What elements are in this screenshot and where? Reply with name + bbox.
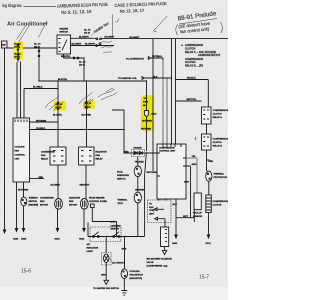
cooling fan switch ground wire [123, 279, 125, 291]
svg-text:STAT: STAT [118, 202, 124, 205]
thermostat [134, 192, 141, 203]
svg-text:COMPRESSOR: COMPRESSOR [159, 147, 175, 149]
svg-text:FAN: FAN [41, 154, 46, 157]
junction switch2 [116, 236, 117, 237]
connector wire through highlight [146, 81, 148, 110]
scan noise texture [0, 0, 1, 1]
svg-text:RED: RED [124, 151, 129, 153]
svg-text:15-6: 15-6 [21, 269, 31, 275]
svg-text:WHT/GRN: WHT/GRN [36, 121, 47, 123]
svg-text:COMPRESSOR: COMPRESSOR [213, 110, 228, 112]
stub corner wire [112, 110, 124, 153]
svg-text:(10 A): (10 A) [14, 55, 20, 58]
svg-text:GRN/RED: GRN/RED [135, 189, 145, 191]
dual pressure switch [134, 166, 141, 177]
pen arrow to fuse No.13/14 [17, 24, 30, 42]
svg-text:BLU/RED: BLU/RED [82, 115, 92, 117]
wire WHT/GRN row [30, 121, 59, 123]
pick-up sensor box [194, 193, 201, 210]
junction fuse18 feed [57, 80, 58, 81]
fuse No.20-2 symbol [86, 81, 88, 147]
svg-text:BLU/WHT: BLU/WHT [130, 37, 141, 39]
fuse No.13 highlight [14, 42, 24, 51]
svg-text:CLUTCH: CLUTCH [213, 142, 222, 144]
svg-text:CONTROL: CONTROL [15, 155, 26, 157]
svg-text:FAN: FAN [96, 154, 101, 157]
svg-text:G400: G400 [172, 242, 178, 245]
junction no20 drop [38, 80, 39, 81]
pen arrow middle [154, 16, 168, 32]
wire condenser relay stub [30, 178, 45, 180]
svg-text:LIGHTING: LIGHTING [111, 225, 122, 227]
svg-text:COOLING: COOLING [15, 147, 25, 149]
svg-text:WHT/GRN: WHT/GRN [18, 190, 29, 192]
svg-text:A/C SWITCH: A/C SWITCH [112, 262, 125, 265]
fan control unit dashed box [148, 200, 172, 223]
compressor clutch [206, 195, 212, 213]
svg-text:BLK/YEL: BLK/YEL [61, 56, 71, 58]
lamp output wire [105, 263, 107, 281]
svg-text:FUSE: FUSE [143, 102, 149, 104]
battery ground bus wire [4, 48, 6, 230]
svg-text:◁ A/C: ◁ A/C [150, 113, 157, 116]
svg-text:SWITCH: SWITCH [117, 179, 126, 181]
ground cooling fan switch [121, 291, 127, 296]
wire WHT/YEL relay feed [175, 100, 202, 102]
svg-text:(10 A): (10 A) [14, 46, 20, 49]
svg-text:No 12, 18, 17: No 12, 18, 17 [120, 8, 145, 14]
svg-text:BLU/BLK: BLU/BLK [33, 87, 43, 89]
svg-text:BLU/WHT: BLU/WHT [105, 37, 116, 39]
compressor clutch relay A box [202, 107, 212, 124]
svg-text:No. 12: No. 12 [79, 62, 86, 64]
junction relay feed upper [175, 79, 176, 80]
svg-text:BLK: BLK [173, 204, 178, 206]
svg-text:UNIT: UNIT [15, 159, 21, 161]
junction diode row left [123, 152, 124, 153]
a/c switch feed wire [138, 153, 147, 237]
svg-text:BIG MAGNET SOLENOID: BIG MAGNET SOLENOID [147, 257, 173, 260]
svg-text:RELAY A: RELAY A [213, 116, 223, 119]
svg-text:No. 20: No. 20 [34, 44, 41, 46]
junction yel-blk row [86, 129, 87, 130]
junction relay feed lower [175, 100, 176, 101]
svg-text:GRN: GRN [192, 164, 197, 166]
svg-text:FAN: FAN [69, 200, 74, 203]
svg-text:RELAY B ... (FI): RELAY B ... (FI) [185, 65, 203, 68]
svg-text:ing Diagram: ing Diagram [2, 3, 22, 8]
pen scrawl near fuse 30A right [79, 92, 93, 106]
radiator fan motor [80, 199, 88, 210]
pen vertical stroke [111, 14, 113, 38]
svg-text:No. 14: No. 14 [14, 52, 21, 55]
svg-text:SWITCH: SWITCH [29, 201, 38, 203]
svg-text:FAN SWITCH: FAN SWITCH [130, 274, 144, 277]
solenoid arrow out [162, 247, 166, 255]
diode 2 [139, 151, 142, 154]
wire drop from No.12 [83, 58, 85, 81]
svg-text:TO ALTERNATOR: TO ALTERNATOR [126, 57, 144, 60]
pen scrawl far right [98, 88, 117, 100]
svg-text:(CARBURETED eng): (CARBURETED eng) [147, 264, 168, 267]
ground G400 [175, 235, 177, 238]
svg-text:GRN: GRN [110, 222, 115, 224]
svg-text:PICK-UP: PICK-UP [193, 213, 202, 215]
svg-text:(40 A): (40 A) [34, 46, 40, 49]
svg-text:UNIT: UNIT [149, 213, 155, 215]
pen check mark [116, 19, 120, 23]
clutch ground wire [208, 213, 210, 236]
compressor clutch relay B box [202, 134, 212, 150]
wire YEL/BLK relay feed [175, 80, 208, 108]
svg-text:THERMO: THERMO [29, 198, 39, 200]
svg-text:BLU/YEL: BLU/YEL [53, 115, 63, 117]
A/C switch wire [88, 223, 138, 237]
fuse No.14 highlight [14, 51, 24, 60]
GRN wire from heater panel [92, 208, 116, 237]
diode wire [124, 152, 157, 154]
diode box [132, 150, 145, 157]
switch 2 [113, 236, 115, 238]
svg-text:CONDENSER: CONDENSER [40, 198, 54, 200]
svg-text:COMPRESSOR: COMPRESSOR [213, 201, 229, 203]
cooling fan switch wire [124, 237, 126, 270]
svg-text:FAN: FAN [40, 200, 45, 203]
svg-text:Air Conditioner: Air Conditioner [7, 22, 49, 28]
A/C switch dashed box [90, 227, 121, 242]
svg-text:G101: G101 [206, 243, 212, 245]
svg-text:CONTROL PANEL: CONTROL PANEL [89, 200, 108, 203]
condenser fan motor [55, 199, 63, 210]
svg-text:INDICATOR: INDICATOR [87, 247, 99, 250]
svg-text:RELAY: RELAY [96, 158, 104, 161]
svg-text:(ENGINE): (ENGINE) [29, 205, 39, 207]
wire BLK/YEL horizontal [39, 80, 147, 82]
junction diode row right [146, 152, 147, 153]
main bus wire [7, 47, 57, 49]
handwritten note 3: 88-91 Prelude [176, 10, 223, 35]
svg-text:YEL/BLK: YEL/BLK [36, 128, 46, 130]
wire to compressor clutch [208, 181, 210, 195]
header rule [24, 5, 57, 7]
svg-text:BLU/WHT: BLU/WHT [85, 44, 96, 46]
svg-text:SENSOR: SENSOR [193, 216, 202, 218]
condenser fan motor ground wire [57, 208, 59, 228]
heater switch box [57, 35, 71, 54]
wire drops to control unit [17, 62, 24, 118]
header text "ing Diagram" [2, 3, 22, 8]
junction left drop b [20, 61, 21, 62]
svg-text:G401: G401 [13, 238, 19, 241]
wire No.12 fuse row [64, 54, 85, 58]
svg-text:DUAL: DUAL [117, 171, 124, 174]
svg-text:GRN: GRN [101, 274, 106, 276]
ground G402 [22, 229, 24, 232]
svg-text:BLK: BLK [153, 76, 158, 78]
fuse No.20 symbol [38, 48, 40, 81]
leader a/c switch [106, 253, 112, 262]
wire WHT/BLU arrow to alternator [151, 58, 163, 60]
svg-text:THERMO-: THERMO- [118, 200, 128, 202]
pick-up sensor feed [186, 158, 197, 193]
paper background [0, 0, 228, 300]
svg-text:(10 A): (10 A) [79, 64, 85, 67]
svg-text:MOTOR: MOTOR [69, 205, 77, 207]
heater panel feed box [91, 204, 95, 208]
svg-text:TO: TO [149, 204, 152, 206]
svg-text:LIGHT: LIGHT [87, 251, 94, 253]
svg-text:WHT/YEL: WHT/YEL [187, 99, 197, 101]
legend: compressor clutch relay list [180, 44, 221, 68]
svg-text:WHT/GRN: WHT/GRN [147, 172, 158, 174]
svg-text:TO HEATER FAN SWITCH: TO HEATER FAN SWITCH [93, 287, 120, 290]
cooling fan control unit box [13, 118, 30, 182]
dual pressure switch wire [137, 157, 139, 167]
svg-text:BLU/BLK: BLU/BLK [51, 185, 61, 187]
label TO FUSE 40A in highlight [143, 98, 149, 107]
fuse No.20 30A highlight [83, 101, 95, 110]
wire BLU/BLK horizontal [24, 88, 58, 90]
ground battery bus [3, 230, 5, 233]
svg-text:MOTOR: MOTOR [40, 205, 48, 207]
svg-text:CLUTCH: CLUTCH [213, 114, 222, 116]
svg-text:(RADIATOR): (RADIATOR) [130, 277, 143, 280]
thermostat wire [137, 177, 139, 193]
wire to ignition coil [145, 77, 172, 79]
svg-text:SWITCH: SWITCH [60, 32, 69, 34]
cooling fan switch [121, 269, 127, 279]
indicator lamp wires [105, 237, 107, 253]
svg-text:YEL/BLK: YEL/BLK [187, 78, 197, 80]
junction connector feed [146, 80, 147, 81]
svg-text:WHT/RED: WHT/RED [142, 120, 152, 122]
fuse No.13/14 symbols [17, 43, 19, 62]
svg-text:No. 18: No. 18 [56, 104, 63, 106]
connector pentagon [145, 111, 149, 117]
svg-text:(30 A): (30 A) [85, 105, 91, 108]
wire relay B to thermal protector [207, 150, 210, 171]
handwritten note 1: CARBURATED ECU [57, 2, 108, 15]
wire blower switch row [71, 45, 115, 47]
solenoid valve box [161, 227, 169, 247]
svg-text:WHT/RED: WHT/RED [141, 128, 151, 130]
battery feed box [2, 41, 8, 48]
thermal protector [206, 171, 212, 181]
thermo switch [21, 197, 27, 206]
junction wht-grn row [57, 121, 58, 122]
junction yel-blk right [123, 129, 124, 130]
junction fuse20-2 feed [86, 80, 87, 81]
svg-text:PRESSURE: PRESSURE [117, 175, 129, 177]
diode 1 [134, 151, 137, 154]
highlighted A/C fuse connector [141, 95, 154, 132]
svg-text:No. 13: No. 13 [14, 44, 21, 46]
junction lamp drop [106, 236, 107, 237]
svg-text:VALVE: VALVE [147, 261, 154, 264]
junction left drop a [16, 67, 17, 68]
svg-text:No. 18: No. 18 [84, 30, 91, 32]
svg-text:BLU/WHT: BLU/WHT [79, 36, 90, 38]
svg-text:WHT: WHT [183, 216, 189, 218]
svg-text:RELAY B: RELAY B [213, 145, 223, 148]
svg-text:RED: RED [39, 177, 44, 179]
fuse No.18 30A highlight [54, 101, 66, 111]
svg-text:FAN: FAN [15, 150, 20, 153]
svg-text:DIODES: DIODES [134, 148, 143, 150]
junction symbol [195, 137, 197, 141]
svg-text:RED/WHT: RED/WHT [80, 185, 91, 187]
ground condenser motor [56, 229, 58, 232]
svg-text:CONTROL UNIT: CONTROL UNIT [159, 151, 176, 153]
svg-text:FROM HEATER: FROM HEATER [89, 197, 105, 200]
svg-text:15-7: 15-7 [199, 275, 209, 281]
condenser fan relay box [50, 147, 66, 165]
thermo switch wires [17, 182, 24, 229]
junction no12 drop [83, 57, 84, 58]
ground radiator motor [83, 229, 85, 232]
svg-text:CTRL: CTRL [149, 210, 155, 212]
svg-text:FAN: FAN [149, 206, 154, 209]
ground G401 [15, 229, 17, 232]
svg-text:G201: G201 [55, 239, 61, 241]
feed wires to control unit [153, 39, 176, 171]
svg-text:(10 A): (10 A) [84, 32, 90, 35]
svg-text:WHT/BLU: WHT/BLU [152, 56, 162, 58]
svg-text:YEL/RED: YEL/RED [135, 162, 145, 164]
pen scrawl near fuse 30A left [45, 96, 63, 111]
relay link wire [206, 124, 208, 134]
compressor control unit box [157, 144, 186, 199]
svg-text:COMPRESSOR: COMPRESSOR [213, 139, 228, 141]
wire YEL/BLK row [30, 129, 125, 131]
svg-text:RADIATOR: RADIATOR [96, 151, 108, 154]
svg-text:CLUTCH: CLUTCH [213, 205, 222, 207]
indicator lamp dashed box [102, 253, 112, 266]
svg-text:GRN: GRN [184, 182, 189, 184]
svg-text:G402: G402 [21, 238, 27, 241]
pen note heater fan [91, 21, 109, 35]
blower fuse symbol [96, 38, 98, 40]
indicator lamp [104, 254, 109, 262]
svg-text:YEL: YEL [192, 156, 197, 158]
svg-text:CONDENSER: CONDENSER [41, 152, 55, 154]
pen scrawl right of blower wire [100, 41, 113, 53]
svg-text:RADIATOR: RADIATOR [69, 197, 81, 200]
switch 1 [92, 236, 94, 238]
wire to blower fuse [71, 37, 97, 39]
svg-text:A/C: A/C [87, 243, 91, 246]
pen arrow to fuse No.20 [39, 21, 48, 38]
svg-text:RELAY: RELAY [41, 158, 49, 161]
fuse No.18 symbol [57, 81, 59, 147]
svg-text:G202: G202 [79, 239, 85, 241]
svg-text:COOLING: COOLING [130, 271, 140, 273]
svg-text:PROTECTOR: PROTECTOR [214, 177, 228, 179]
svg-text:CARBURETED K/T: CARBURETED K/T [198, 54, 221, 57]
svg-text:SWITCH: SWITCH [111, 228, 120, 230]
handwritten note 2: CASE 2 ECU [114, 1, 167, 14]
svg-text:HEATER: HEATER [60, 28, 69, 31]
junction blu-blk row [57, 88, 58, 89]
wire GRN to solenoid [176, 166, 194, 222]
junction fan switch drop [124, 236, 125, 237]
to heater fan arrow [104, 280, 109, 284]
ground clutch [207, 235, 209, 238]
radiator fan motor wire [85, 165, 87, 199]
svg-text:BLK/YEL: BLK/YEL [58, 79, 68, 81]
svg-text:TO IGNITION COIL: TO IGNITION COIL [118, 78, 137, 80]
radiator fan relay box [79, 147, 95, 165]
wire BLK control unit ground [175, 199, 177, 235]
svg-text:BLU/WHT: BLU/WHT [72, 44, 83, 46]
condenser fan motor wire [57, 165, 59, 199]
thermostat drop wire [137, 203, 139, 237]
svg-text:RED: RED [209, 161, 214, 163]
radiator fan motor ground wire [83, 208, 85, 228]
svg-text:THERMAL: THERMAL [214, 173, 225, 176]
svg-text:GRN: GRN [122, 248, 127, 250]
